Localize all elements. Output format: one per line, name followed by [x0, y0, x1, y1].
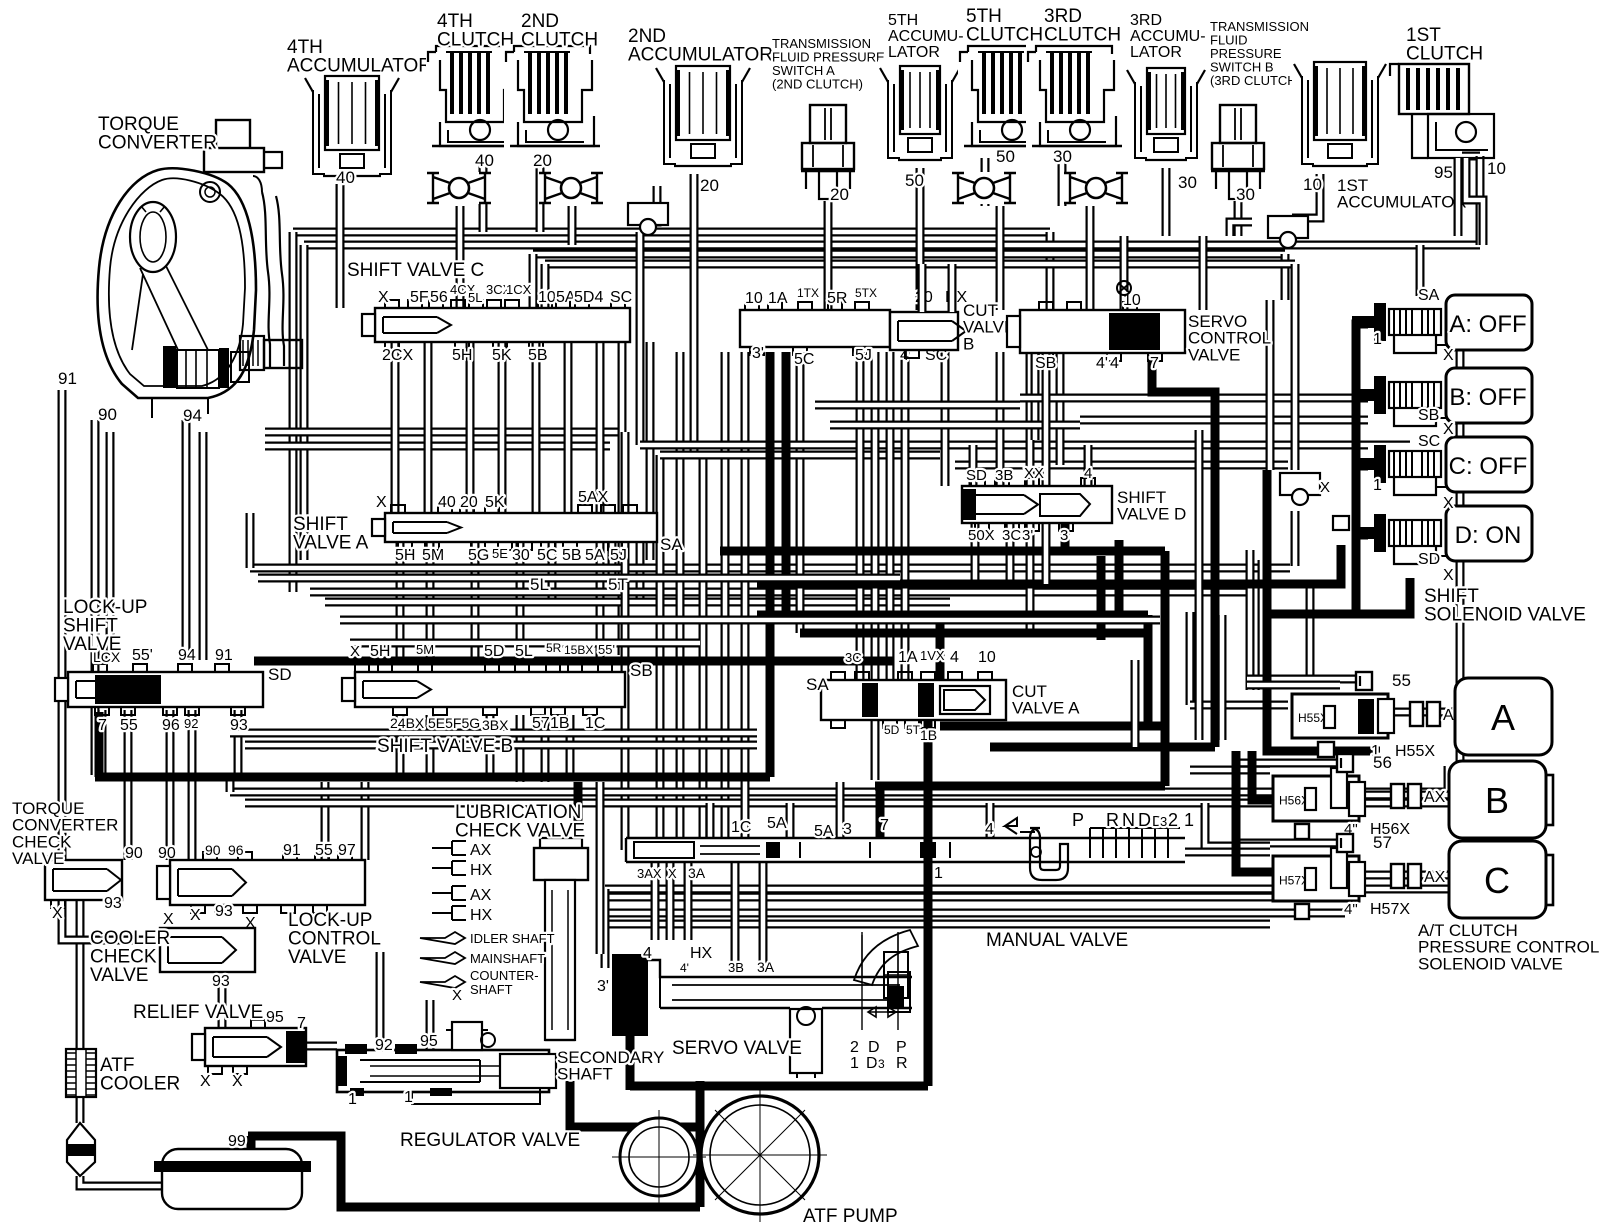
wire	[568, 206, 577, 245]
svg-text:4: 4	[950, 649, 959, 666]
solenoid A	[1352, 303, 1446, 359]
svg-text:10: 10	[978, 649, 996, 666]
wire	[456, 206, 465, 308]
svg-text:COOLER: COOLER	[100, 1074, 180, 1095]
svg-text:2: 2	[1168, 810, 1178, 830]
wire	[1084, 445, 1093, 486]
svg-text:ACCUMULATOR: ACCUMULATOR	[628, 45, 773, 66]
svg-text:5H: 5H	[370, 643, 390, 660]
wire	[1058, 155, 1067, 206]
wire	[1266, 300, 1275, 470]
wire	[391, 342, 400, 513]
wire	[486, 715, 495, 775]
wire	[479, 152, 488, 232]
svg-text:5L: 5L	[468, 290, 482, 305]
svg-text:40: 40	[438, 494, 456, 511]
wire	[1356, 462, 1380, 471]
svg-text:93: 93	[230, 717, 248, 734]
manual valve	[626, 818, 1185, 880]
wire	[1056, 353, 1065, 465]
svg-text:3BX: 3BX	[482, 717, 509, 733]
svg-text:X: X	[376, 494, 387, 511]
svg-text:CLUTCH: CLUTCH	[437, 30, 514, 51]
svg-text:5C: 5C	[537, 547, 557, 564]
svg-text:1C: 1C	[585, 715, 605, 732]
svg-text:SHIFT VALVE C: SHIFT VALVE C	[347, 260, 484, 281]
svg-text:X: X	[52, 905, 63, 922]
svg-text:91: 91	[283, 842, 301, 859]
wire	[815, 401, 1020, 410]
box A	[1455, 678, 1552, 755]
svg-text:X: X	[1443, 421, 1454, 438]
module H56X	[1273, 768, 1365, 821]
svg-text:ACCUMULATOR: ACCUMULATOR	[1337, 193, 1467, 212]
svg-text:SHAFT: SHAFT	[470, 982, 513, 997]
svg-text:RELIEF VALVE: RELIEF VALVE	[133, 1002, 263, 1023]
svg-text:X: X	[1443, 347, 1454, 364]
wire	[941, 352, 950, 486]
wire	[618, 342, 627, 655]
solenoid C	[1352, 445, 1446, 501]
svg-text:55: 55	[1392, 671, 1411, 690]
svg-text:5E: 5E	[492, 546, 508, 561]
svg-text:5B: 5B	[562, 547, 582, 564]
wire	[574, 782, 583, 830]
svg-text:3': 3'	[1022, 527, 1033, 544]
wire	[605, 920, 1270, 929]
wire	[1190, 701, 1288, 710]
wire	[166, 710, 175, 860]
wire	[1240, 759, 1337, 768]
wire	[304, 241, 1480, 250]
wire	[656, 455, 665, 838]
svg-text:55': 55'	[598, 642, 615, 657]
orifice symbol	[1117, 281, 1131, 295]
svg-text:D: D	[1138, 810, 1151, 830]
wire	[1246, 550, 1255, 690]
wire	[1152, 355, 1215, 747]
svg-text:X: X	[232, 1073, 243, 1090]
lock-up control valve	[170, 860, 365, 905]
svg-text:5J: 5J	[855, 347, 872, 364]
wire	[1292, 172, 1320, 218]
orifice	[1280, 473, 1320, 495]
svg-text:REGULATOR VALVE: REGULATOR VALVE	[400, 1130, 580, 1151]
svg-text:CLUTCH: CLUTCH	[521, 30, 598, 51]
svg-text:N: N	[1122, 810, 1135, 830]
wire	[596, 782, 605, 954]
box C	[1446, 437, 1532, 492]
svg-text:D: D	[866, 1055, 878, 1072]
transmission fluid pressure switch B	[1210, 103, 1266, 201]
wire	[636, 308, 645, 445]
svg-text:VALVE D: VALVE D	[1117, 505, 1186, 524]
svg-text:3': 3'	[597, 978, 609, 995]
wire	[1387, 708, 1455, 717]
svg-text:CONVERTER: CONVERTER	[98, 133, 217, 154]
1st accumulator	[1292, 56, 1388, 174]
svg-text:COUNTER-: COUNTER-	[470, 968, 539, 983]
svg-text:2CX: 2CX	[382, 347, 413, 364]
svg-text:40: 40	[336, 168, 355, 187]
svg-text:X: X	[190, 907, 201, 924]
wire	[721, 352, 730, 838]
shift valve C	[375, 308, 630, 342]
svg-text:7: 7	[297, 1015, 306, 1032]
module H55X	[1292, 694, 1394, 738]
svg-text:5D: 5D	[484, 643, 504, 660]
wire	[757, 545, 1341, 584]
svg-text:96: 96	[228, 842, 244, 858]
svg-text:P: P	[896, 1039, 907, 1056]
svg-text:95: 95	[266, 1009, 284, 1026]
svg-text:CLUTCH: CLUTCH	[966, 25, 1043, 46]
svg-text:B: B	[1485, 780, 1509, 821]
wire	[529, 254, 538, 308]
svg-text:C: C	[1484, 860, 1510, 901]
svg-text:SA: SA	[806, 675, 829, 694]
svg-text:5AX: 5AX	[578, 489, 609, 506]
wire	[630, 1082, 700, 1091]
svg-text:3: 3	[878, 1057, 885, 1071]
wire	[660, 451, 940, 460]
svg-text:4": 4"	[1344, 901, 1358, 918]
svg-text:5F: 5F	[410, 289, 429, 306]
svg-text:3: 3	[843, 821, 852, 838]
wire	[248, 1136, 700, 1207]
wire	[950, 848, 1270, 857]
svg-text:AX: AX	[470, 887, 492, 904]
wire	[690, 172, 699, 455]
svg-text:X: X	[668, 866, 677, 881]
svg-text:SB: SB	[630, 661, 653, 680]
wire	[1080, 416, 1432, 425]
wire	[924, 720, 933, 1086]
svg-text:VALVE A: VALVE A	[1012, 699, 1080, 718]
svg-text:55': 55'	[132, 647, 153, 664]
svg-text:X: X	[378, 289, 389, 306]
wire	[666, 862, 675, 940]
wire	[969, 445, 978, 486]
wire	[626, 1030, 635, 1090]
wire	[1356, 324, 1380, 612]
wire	[1291, 300, 1300, 470]
wire	[1358, 871, 1449, 880]
wire	[924, 836, 933, 866]
svg-text:90: 90	[98, 405, 117, 424]
wire	[1258, 560, 1267, 690]
svg-text:SHIFT VALVE B: SHIFT VALVE B	[377, 736, 513, 757]
svg-text:3RD: 3RD	[1130, 12, 1162, 29]
wire	[759, 862, 768, 968]
svg-text:57: 57	[532, 715, 550, 732]
check valve	[538, 172, 604, 204]
svg-text:95: 95	[420, 1033, 438, 1050]
svg-text:SD: SD	[1418, 551, 1440, 568]
svg-text:2: 2	[850, 1039, 859, 1056]
svg-text:ATF PUMP: ATF PUMP	[803, 1206, 898, 1227]
lock-up shift valve	[68, 672, 263, 707]
svg-text:1: 1	[1373, 477, 1382, 494]
wire	[731, 862, 740, 968]
wire	[1162, 168, 1171, 236]
wire	[948, 264, 957, 312]
svg-text:56: 56	[430, 289, 448, 306]
wire	[876, 786, 885, 838]
svg-text:40: 40	[475, 151, 494, 170]
svg-text:MANUAL VALVE: MANUAL VALVE	[986, 930, 1128, 951]
wire	[1026, 523, 1035, 633]
svg-text:30: 30	[1236, 185, 1255, 204]
svg-text:H55X: H55X	[1395, 743, 1435, 760]
svg-text:ACCUMU-: ACCUMU-	[1130, 28, 1206, 45]
oil pan	[154, 1149, 311, 1209]
wire	[1291, 264, 1300, 470]
wire	[636, 232, 645, 308]
wire	[1097, 556, 1106, 640]
svg-text:57: 57	[1373, 833, 1392, 852]
wire	[1252, 751, 1275, 800]
wire	[1190, 766, 1270, 775]
svg-text:5G: 5G	[468, 547, 489, 564]
wire	[636, 542, 645, 606]
wire	[676, 352, 685, 838]
svg-text:SOLENOID VALVE: SOLENOID VALVE	[1424, 605, 1586, 626]
transmission fluid pressure switch A	[800, 103, 856, 201]
svg-text:VALVE A: VALVE A	[293, 533, 369, 554]
wire	[1031, 353, 1040, 440]
svg-text:XX: XX	[1024, 465, 1044, 482]
wire	[1046, 232, 1055, 310]
svg-text:MAINSHAFT: MAINSHAFT	[470, 951, 545, 966]
svg-text:5TX: 5TX	[855, 286, 877, 300]
cooler check valve	[160, 928, 255, 972]
2nd accumulator	[654, 60, 752, 174]
svg-text:3': 3'	[752, 345, 764, 362]
servo control valve	[1020, 310, 1185, 353]
svg-text:X: X	[163, 911, 174, 928]
check valve	[951, 172, 1017, 204]
2nd clutch	[504, 44, 604, 158]
svg-text:5R: 5R	[546, 641, 562, 655]
torque converter check valve	[45, 860, 122, 900]
wire	[1086, 206, 1095, 310]
wire	[1291, 511, 1300, 566]
wire	[250, 564, 1290, 573]
wire	[325, 598, 950, 607]
svg-text:5H: 5H	[395, 547, 415, 564]
torque converter	[98, 120, 302, 418]
wire	[396, 715, 405, 775]
wire	[1236, 751, 1275, 872]
svg-text:SOLENOID VALVE: SOLENOID VALVE	[1418, 954, 1563, 973]
wire	[376, 952, 385, 1050]
svg-text:5A: 5A	[814, 823, 834, 840]
wire	[91, 420, 100, 775]
svg-text:90: 90	[125, 845, 143, 862]
wire	[875, 782, 1165, 791]
svg-text:LCX: LCX	[93, 649, 121, 665]
box D	[1446, 506, 1532, 561]
wire	[757, 611, 1148, 620]
svg-text:5D4: 5D4	[574, 289, 603, 306]
svg-text:10: 10	[1487, 159, 1506, 178]
wire	[1161, 551, 1170, 786]
wire	[1131, 660, 1140, 747]
svg-text:LATOR: LATOR	[1130, 44, 1182, 61]
svg-text:1: 1	[1184, 810, 1194, 830]
svg-text:(3RD CLUTCH): (3RD CLUTCH)	[1210, 73, 1301, 88]
wire	[1476, 156, 1485, 245]
svg-text:1: 1	[404, 1089, 413, 1106]
wire	[570, 1081, 700, 1127]
wire	[955, 461, 1288, 470]
svg-text:VALVE: VALVE	[12, 849, 64, 868]
svg-text:VALVE: VALVE	[90, 965, 148, 986]
svg-text:4': 4'	[1096, 355, 1108, 372]
wire	[940, 722, 1165, 731]
svg-text:3AX: 3AX	[637, 866, 662, 881]
ATF pump	[612, 1088, 827, 1222]
svg-text:5E5F5G: 5E5F5G	[428, 715, 480, 731]
wire	[230, 788, 1460, 797]
wire	[1306, 580, 1315, 680]
svg-text:4: 4	[1110, 355, 1119, 372]
wire	[1476, 156, 1485, 245]
wire	[426, 542, 435, 663]
svg-text:91: 91	[215, 647, 233, 664]
shift valve B	[355, 672, 625, 707]
wire	[766, 352, 775, 551]
svg-text:4: 4	[1084, 465, 1092, 482]
svg-text:93: 93	[104, 895, 122, 912]
svg-text:20: 20	[533, 151, 552, 170]
wire	[76, 900, 85, 1049]
wire	[796, 352, 805, 633]
wire	[1020, 394, 1440, 403]
svg-text:AX: AX	[1424, 869, 1446, 886]
wire	[265, 442, 610, 451]
svg-text:5K: 5K	[492, 347, 512, 364]
svg-text:5L: 5L	[530, 575, 549, 594]
svg-text:1A: 1A	[768, 290, 788, 307]
wire	[336, 172, 345, 308]
svg-text:(2ND CLUTCH): (2ND CLUTCH)	[772, 77, 863, 92]
wire	[981, 155, 990, 206]
wire	[1195, 430, 1204, 740]
wire	[245, 799, 1448, 808]
box B	[1539, 775, 1553, 825]
wire	[996, 352, 1005, 486]
wire	[886, 352, 895, 680]
wire	[98, 710, 107, 775]
wire	[361, 782, 370, 860]
wire	[699, 455, 708, 838]
wire	[245, 741, 757, 750]
wire	[605, 885, 1448, 894]
wire	[541, 264, 550, 308]
wire	[916, 168, 925, 310]
wire	[536, 152, 545, 232]
wire	[824, 195, 833, 310]
svg-text:5M: 5M	[422, 547, 444, 564]
svg-text:7: 7	[98, 717, 107, 734]
wire	[106, 432, 115, 660]
svg-text:B: OFF: B: OFF	[1449, 384, 1526, 411]
check valve	[426, 172, 492, 204]
wire	[566, 715, 575, 775]
svg-text:H57X: H57X	[1370, 901, 1410, 918]
wire	[80, 1176, 162, 1186]
wire	[182, 420, 191, 660]
svg-text:VALVE: VALVE	[288, 947, 346, 968]
wire	[621, 432, 630, 850]
wire	[246, 513, 255, 568]
wire	[1281, 254, 1290, 300]
cut valve B	[890, 312, 958, 350]
svg-text:10: 10	[745, 290, 763, 307]
wire	[45, 856, 62, 865]
svg-text:1B: 1B	[920, 727, 937, 743]
svg-text:30: 30	[1053, 147, 1072, 166]
wire	[300, 245, 309, 560]
svg-text:15BX: 15BX	[564, 643, 593, 657]
svg-text:10: 10	[1303, 175, 1322, 194]
svg-text:4: 4	[643, 945, 652, 962]
svg-text:X: X	[200, 1073, 211, 1090]
svg-text:SD: SD	[966, 467, 987, 484]
wire	[996, 206, 1005, 310]
wire	[230, 729, 757, 738]
svg-text:HX: HX	[470, 862, 493, 879]
svg-text:3A: 3A	[757, 959, 775, 975]
svg-text:97: 97	[338, 842, 356, 859]
wire	[782, 352, 791, 615]
wire	[646, 342, 655, 560]
wire	[800, 629, 1148, 638]
wire	[199, 432, 208, 660]
svg-text:5K: 5K	[485, 494, 505, 511]
svg-text:3C: 3C	[1002, 527, 1021, 544]
wire	[596, 342, 605, 660]
svg-text:99: 99	[228, 1133, 246, 1150]
svg-text:HX: HX	[690, 945, 713, 962]
wire	[293, 228, 1050, 237]
wire	[1416, 245, 1425, 296]
svg-text:95: 95	[1434, 163, 1453, 182]
svg-text:3: 3	[1160, 814, 1167, 829]
5th accumulator	[878, 60, 962, 168]
wire	[188, 710, 197, 860]
wire	[533, 250, 1285, 259]
wire	[1358, 791, 1449, 800]
svg-text:5D: 5D	[884, 723, 900, 737]
wire	[1199, 236, 1208, 310]
module H57X	[1273, 848, 1365, 901]
svg-text:93: 93	[215, 903, 233, 920]
svg-text:5A: 5A	[556, 289, 576, 306]
svg-text:5T: 5T	[906, 723, 921, 737]
svg-text:SA: SA	[660, 535, 683, 554]
relief valve	[205, 1028, 306, 1066]
svg-text:5T: 5T	[608, 575, 628, 594]
svg-text:50: 50	[905, 171, 924, 190]
svg-text:B: B	[963, 334, 974, 353]
wire	[1205, 803, 1270, 846]
wire	[871, 352, 880, 780]
manual detent lever	[854, 930, 918, 1030]
wire	[741, 352, 750, 838]
